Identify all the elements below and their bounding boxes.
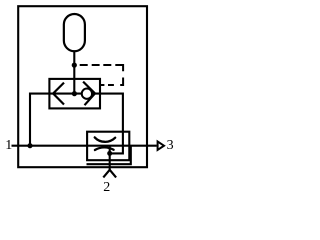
svg-text:1: 1 [5,138,12,153]
svg-text:2: 2 [103,180,110,195]
svg-text:3: 3 [167,138,174,153]
